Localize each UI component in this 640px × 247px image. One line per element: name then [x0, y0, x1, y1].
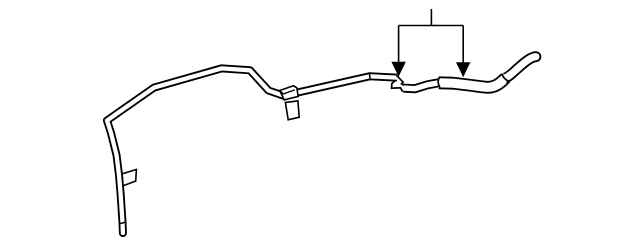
connector step lower edge: [392, 81, 403, 92]
joint patch: [503, 78, 507, 82]
callout right arrowhead: [456, 62, 470, 77]
tick at fitting junction: [369, 72, 370, 80]
callout right leader: [462, 26, 464, 64]
callout stem: [430, 9, 432, 26]
callout bracket: [399, 25, 464, 27]
tick on pipe tip: [119, 222, 127, 224]
clip tab hanging: [285, 101, 299, 120]
pipe P1 inner white: [107, 68, 397, 232]
end tube white: [503, 57, 536, 79]
hose H2 white (leaves joint line at left end): [439, 76, 507, 87]
bracket tab on pipe (left): [121, 170, 137, 187]
joint arc hose H1 / hose H2: [438, 77, 440, 88]
pipe tip rounded cap (bottom left): [120, 230, 126, 236]
clip strap fold line: [280, 90, 295, 94]
callout left leader: [398, 26, 400, 64]
callout left arrowhead: [391, 62, 405, 77]
clip strap over pipe: [280, 86, 299, 100]
end tube (upper right) black: [505, 57, 536, 79]
end tube rounded cap: [531, 52, 540, 61]
joint line hose H2 / end tube: [502, 74, 509, 82]
connector step upper edge: [397, 75, 404, 85]
hose H1 (short wavy) black: [403, 83, 439, 89]
pipe P1 (metal tube) outer black: [107, 68, 397, 232]
hose H2 (thick) black: [439, 78, 506, 87]
hose H1 white: [403, 83, 439, 89]
